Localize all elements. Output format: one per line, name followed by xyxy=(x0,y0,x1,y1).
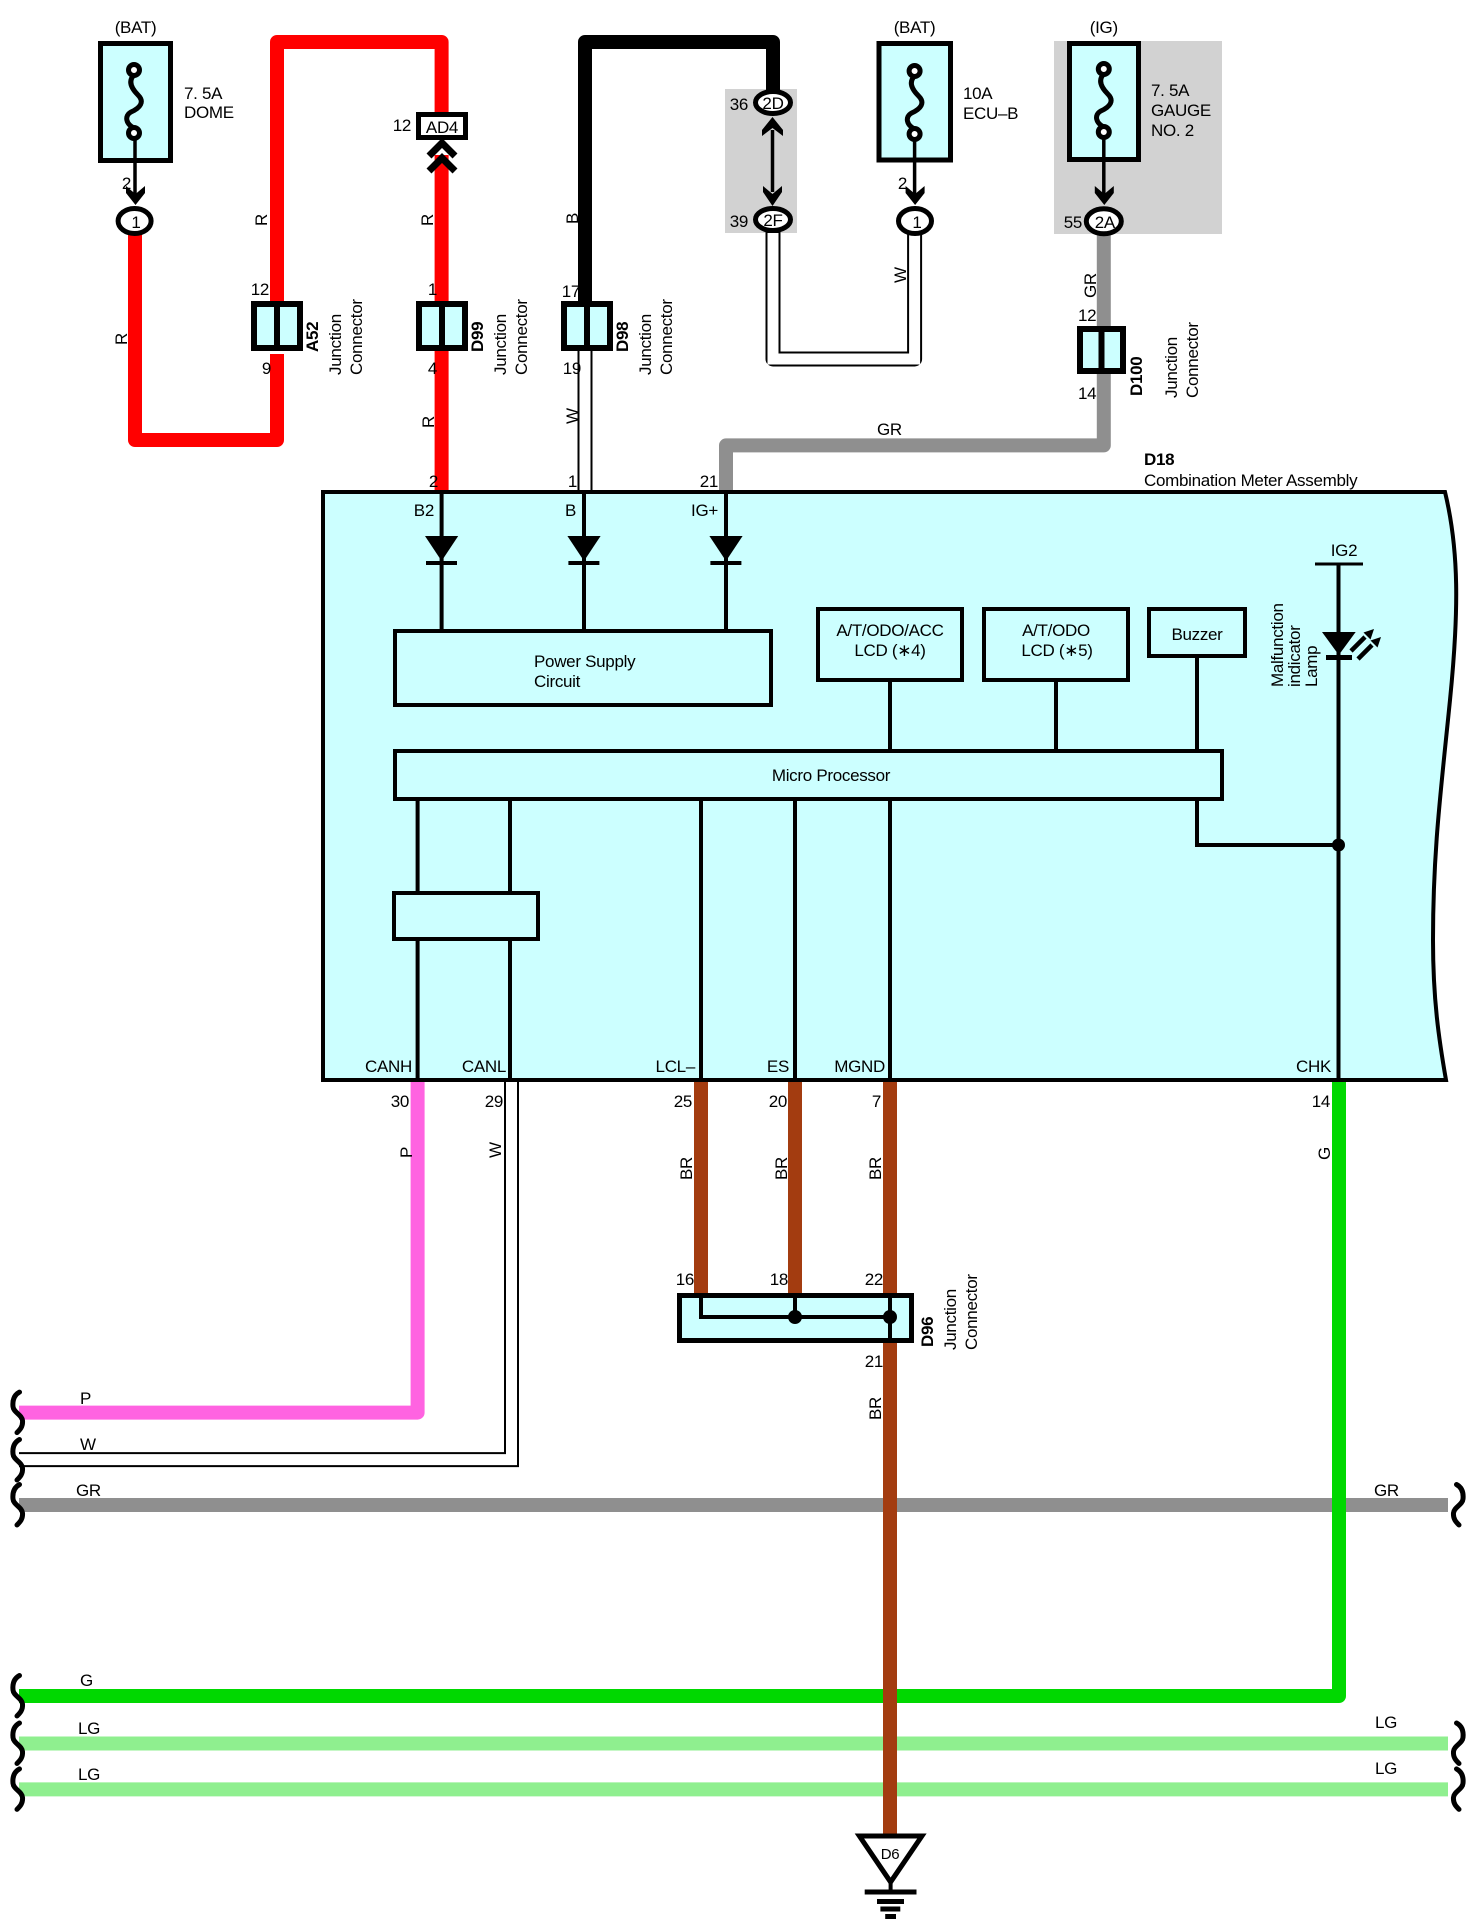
svg-text:LCD (∗4): LCD (∗4) xyxy=(854,641,925,660)
wire LCD2 to microprocessor xyxy=(1054,680,1058,753)
svg-text:39: 39 xyxy=(730,212,748,231)
wire buzzer to junction with CHK xyxy=(1197,656,1339,845)
svg-text:1: 1 xyxy=(568,472,577,491)
svg-text:(BAT): (BAT) xyxy=(894,18,936,37)
break left GR xyxy=(13,1485,23,1526)
svg-text:B: B xyxy=(563,213,582,224)
svg-text:22: 22 xyxy=(865,1270,883,1289)
svg-text:Junction: Junction xyxy=(941,1289,960,1350)
wire G green from CHK pin 14 xyxy=(19,1082,1339,1696)
micro processor box xyxy=(395,751,1222,799)
svg-text:1: 1 xyxy=(131,213,140,232)
junction connector D99 xyxy=(419,304,465,348)
svg-text:CANH: CANH xyxy=(365,1057,412,1076)
svg-text:G: G xyxy=(80,1671,93,1690)
svg-text:CANL: CANL xyxy=(462,1057,506,1076)
wire B2 internal xyxy=(440,492,444,631)
svg-text:14: 14 xyxy=(1312,1092,1330,1111)
wire B black from D98 to 2D xyxy=(585,42,773,303)
buzzer box xyxy=(1149,609,1245,656)
wire W white from D98 pin19 to pin 1 xyxy=(578,349,593,490)
svg-text:Micro Processor: Micro Processor xyxy=(772,766,891,785)
svg-text:ECU–B: ECU–B xyxy=(963,104,1018,123)
svg-text:GR: GR xyxy=(76,1481,101,1500)
relay block AD4 box xyxy=(419,115,466,138)
break left P xyxy=(13,1392,23,1433)
combination meter assembly D18 box xyxy=(323,492,1456,1080)
junction connector D100 xyxy=(1080,329,1123,371)
svg-text:36: 36 xyxy=(730,95,748,114)
pin 2 link ECU-B fuse xyxy=(913,140,917,196)
ground symbol D6 xyxy=(859,1836,922,1917)
fuse 10A ECU-B element xyxy=(907,66,922,140)
shaded area around GAUGE NO.2 fuse xyxy=(1054,41,1222,234)
break right GR xyxy=(1453,1485,1463,1526)
svg-text:D100: D100 xyxy=(1127,357,1146,396)
svg-text:BR: BR xyxy=(772,1157,791,1180)
wire BR from LCL- pin 25 to D96 xyxy=(694,1082,708,1295)
arrow into 2A xyxy=(1095,186,1114,205)
svg-text:21: 21 xyxy=(865,1352,883,1371)
wire ES internal xyxy=(793,799,797,1080)
svg-text:G: G xyxy=(1315,1147,1334,1160)
svg-text:GR: GR xyxy=(1374,1481,1399,1500)
svg-text:AD4: AD4 xyxy=(426,118,458,137)
svg-text:GR: GR xyxy=(1081,273,1100,298)
break right LG2 xyxy=(1453,1769,1463,1810)
svg-text:Junction: Junction xyxy=(636,314,655,375)
svg-text:A52: A52 xyxy=(303,322,322,352)
connector circle 1 (DOME) xyxy=(118,209,151,234)
LED malfunction indicator lamp xyxy=(1322,629,1381,659)
wire W white from CANL pin 29 xyxy=(19,1082,512,1460)
svg-text:Buzzer: Buzzer xyxy=(1171,625,1223,644)
svg-text:7. 5A: 7. 5A xyxy=(1151,81,1190,100)
svg-text:12: 12 xyxy=(393,116,411,135)
svg-text:Connector: Connector xyxy=(962,1274,981,1350)
svg-text:R: R xyxy=(252,214,271,226)
svg-text:MGND: MGND xyxy=(834,1057,885,1076)
svg-text:R: R xyxy=(419,416,438,428)
diode at IG+ xyxy=(709,536,742,563)
svg-text:BR: BR xyxy=(866,1397,885,1420)
svg-text:ES: ES xyxy=(767,1057,789,1076)
svg-text:25: 25 xyxy=(674,1092,692,1111)
chevrons below AD4 xyxy=(429,143,455,171)
svg-text:29: 29 xyxy=(485,1092,503,1111)
fuse 10A ECU-B box xyxy=(879,44,951,161)
wire IG2 to CHK xyxy=(1337,564,1341,1080)
wire CANH internal xyxy=(416,799,420,1080)
break left W xyxy=(13,1440,23,1481)
svg-text:18: 18 xyxy=(770,1270,788,1289)
shaded area around connectors 2D/2F xyxy=(725,89,797,233)
svg-text:CHK: CHK xyxy=(1296,1057,1332,1076)
svg-text:7. 5A: 7. 5A xyxy=(184,84,223,103)
wire R from A52 up over to AD4 xyxy=(277,42,442,303)
wire BR from D96 pin 21 to ground D6 xyxy=(883,1341,897,1836)
break right LG1 xyxy=(1453,1723,1463,1764)
fuse 7.5A GAUGE NO.2 box xyxy=(1070,44,1139,160)
arrow into ECU-B circle 1 xyxy=(906,186,925,205)
svg-text:D96: D96 xyxy=(918,1317,937,1347)
svg-text:Circuit: Circuit xyxy=(534,672,581,691)
junction connector D98 xyxy=(564,304,610,348)
svg-text:A/T/ODO/ACC: A/T/ODO/ACC xyxy=(836,621,943,640)
connector oval 2A xyxy=(1086,209,1121,234)
svg-text:IG2: IG2 xyxy=(1331,541,1358,560)
svg-text:BR: BR xyxy=(866,1157,885,1180)
unlabeled box over CANH/CANL xyxy=(394,893,538,939)
svg-text:A/T/ODO: A/T/ODO xyxy=(1022,621,1090,640)
svg-text:Junction: Junction xyxy=(1162,337,1181,398)
svg-text:P: P xyxy=(80,1389,91,1408)
INTERNALS xyxy=(418,492,1363,1080)
wire LG lower xyxy=(19,1782,1448,1796)
svg-text:LG: LG xyxy=(1375,1713,1397,1732)
wire MGND internal xyxy=(888,799,892,1080)
connector circle 1 (ECU-B) xyxy=(899,209,932,234)
svg-text:Power Supply: Power Supply xyxy=(534,652,636,671)
svg-text:W: W xyxy=(563,408,582,424)
wire GR horizontal full width xyxy=(19,1498,1448,1512)
svg-text:D18: D18 xyxy=(1144,450,1174,469)
svg-text:2A: 2A xyxy=(1095,213,1116,232)
svg-text:B2: B2 xyxy=(414,501,434,520)
svg-text:LG: LG xyxy=(1375,1759,1397,1778)
svg-text:LG: LG xyxy=(78,1719,100,1738)
svg-text:2: 2 xyxy=(429,472,438,491)
wire CANL internal xyxy=(508,799,512,1080)
diode at B xyxy=(567,536,600,563)
svg-text:W: W xyxy=(80,1435,96,1454)
svg-text:Lamp: Lamp xyxy=(1302,646,1321,687)
wire R from AD4 through D99 to pin 2 xyxy=(435,155,449,490)
svg-text:19: 19 xyxy=(563,359,581,378)
svg-text:20: 20 xyxy=(769,1092,787,1111)
A/T/ODO LCD box xyxy=(984,609,1128,680)
wire GR from 2A through D100 to pin 21 xyxy=(726,234,1104,490)
svg-text:D98: D98 xyxy=(613,322,632,352)
svg-text:2: 2 xyxy=(898,174,907,193)
svg-text:P: P xyxy=(397,1147,416,1158)
svg-text:30: 30 xyxy=(391,1092,409,1111)
junction dot buzzer/CHK xyxy=(1332,839,1345,852)
wire LCL- internal xyxy=(699,799,703,1080)
svg-text:GAUGE: GAUGE xyxy=(1151,101,1211,120)
wire B internal xyxy=(582,492,586,631)
node IG2 terminal bar xyxy=(1315,563,1363,566)
power supply circuit box xyxy=(395,631,771,705)
fuse GAUGE element xyxy=(1097,64,1112,138)
svg-text:7: 7 xyxy=(872,1092,881,1111)
svg-text:1: 1 xyxy=(428,280,437,299)
svg-text:Connector: Connector xyxy=(512,299,531,375)
break left LG2 xyxy=(13,1769,23,1810)
svg-text:D99: D99 xyxy=(468,322,487,352)
svg-text:12: 12 xyxy=(1078,306,1096,325)
link 2D to 2F xyxy=(771,130,775,192)
pin 2 link DOME fuse to connector xyxy=(133,139,137,196)
svg-text:4: 4 xyxy=(428,359,437,378)
svg-text:DOME: DOME xyxy=(184,103,234,122)
svg-text:Junction: Junction xyxy=(326,314,345,375)
svg-text:BR: BR xyxy=(677,1157,696,1180)
fuse 7.5A DOME element xyxy=(127,65,142,139)
wire LCD1 to microprocessor xyxy=(888,680,892,753)
svg-text:2F: 2F xyxy=(763,211,782,230)
svg-text:55: 55 xyxy=(1064,213,1082,232)
svg-text:14: 14 xyxy=(1078,384,1096,403)
wire P pink from CANH pin 30 xyxy=(19,1082,418,1413)
svg-text:2D: 2D xyxy=(762,94,783,113)
arrow down into 2F xyxy=(763,186,782,206)
junction connector D96 xyxy=(680,1295,912,1341)
arrow up into 2D xyxy=(762,117,783,136)
diode at B2 xyxy=(425,536,458,563)
junction connector A52 xyxy=(254,304,300,348)
wire R from DOME fuse circle to A52 xyxy=(135,232,277,440)
svg-text:R: R xyxy=(418,214,437,226)
svg-text:LCL–: LCL– xyxy=(656,1057,696,1076)
svg-text:W: W xyxy=(486,1142,505,1158)
svg-text:Combination Meter Assembly: Combination Meter Assembly xyxy=(1144,471,1358,490)
connector oval 2D xyxy=(756,92,791,114)
BREAKS xyxy=(13,1392,1463,1809)
svg-text:16: 16 xyxy=(676,1270,694,1289)
svg-text:2: 2 xyxy=(122,174,131,193)
connector oval 2F xyxy=(756,209,791,231)
wire BR from ES pin 20 to D96 xyxy=(788,1082,802,1295)
svg-text:21: 21 xyxy=(700,472,718,491)
break left LG1 xyxy=(13,1723,23,1764)
svg-text:(BAT): (BAT) xyxy=(115,18,157,37)
svg-text:Connector: Connector xyxy=(347,299,366,375)
wire W white from 2F to ECU-B circle xyxy=(773,231,915,359)
svg-text:(IG): (IG) xyxy=(1090,18,1118,37)
svg-text:Junction: Junction xyxy=(491,314,510,375)
svg-text:IG+: IG+ xyxy=(691,501,718,520)
svg-text:Connector: Connector xyxy=(1183,322,1202,398)
wire BR from MGND pin 7 to D96 xyxy=(883,1082,897,1295)
svg-text:17: 17 xyxy=(562,282,580,301)
wire IG+ internal xyxy=(724,492,728,631)
fuse 7.5A DOME box xyxy=(101,44,171,161)
svg-text:10A: 10A xyxy=(963,84,993,103)
svg-text:Connector: Connector xyxy=(657,299,676,375)
svg-text:1: 1 xyxy=(912,213,921,232)
arrow into DOME circle 1 xyxy=(126,186,145,205)
svg-text:LCD (∗5): LCD (∗5) xyxy=(1021,641,1092,660)
svg-text:R: R xyxy=(112,333,131,345)
svg-text:GR: GR xyxy=(877,420,902,439)
svg-text:D6: D6 xyxy=(881,1846,900,1863)
svg-text:B: B xyxy=(565,501,576,520)
wire LG upper xyxy=(19,1737,1448,1751)
svg-text:W: W xyxy=(891,267,910,283)
A/T/ODO/ACC LCD box xyxy=(818,609,962,680)
svg-text:NO. 2: NO. 2 xyxy=(1151,121,1194,140)
break left G xyxy=(13,1676,23,1717)
svg-text:12: 12 xyxy=(251,280,269,299)
svg-text:LG: LG xyxy=(78,1765,100,1784)
pin 55 link GAUGE fuse xyxy=(1102,138,1106,196)
svg-text:9: 9 xyxy=(262,359,271,378)
